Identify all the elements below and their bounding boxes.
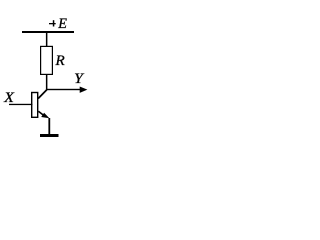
base input wire (9, 104, 33, 105)
transistor Q1 base bar (32, 93, 38, 118)
collector lead of transistor (38, 90, 47, 99)
wire emitter to ground (48, 118, 50, 134)
wire resistor to collector node (46, 75, 48, 90)
wire rail to resistor (46, 33, 48, 46)
svg-text:E: E (57, 16, 67, 32)
emitter lead with arrow (38, 111, 49, 118)
power rail +E (22, 31, 74, 33)
svg-text:X: X (3, 90, 15, 106)
output wire Y with arrow (46, 87, 87, 93)
svg-text:Y: Y (74, 71, 85, 87)
label +E (supply voltage) (49, 16, 67, 32)
resistor R1 (41, 46, 53, 74)
svg-text:R: R (54, 53, 65, 69)
ground (40, 134, 59, 137)
